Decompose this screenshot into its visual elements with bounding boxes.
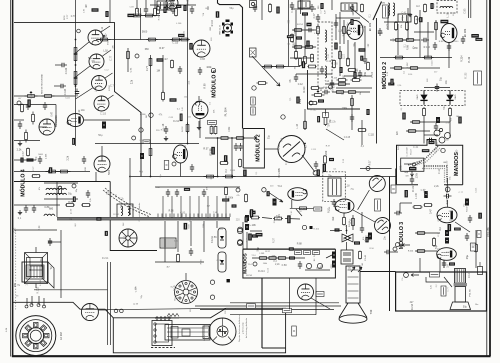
part tag <box>49 167 52 173</box>
wire <box>60 230 62 298</box>
svg-text:5600: 5600 <box>295 42 297 48</box>
wire <box>98 309 108 311</box>
capacitor C51 <box>350 4 354 12</box>
wire <box>292 29 316 31</box>
wire <box>290 57 314 59</box>
wire <box>439 258 441 272</box>
resistor R60 <box>338 83 347 86</box>
label plate <box>292 326 297 336</box>
capacitor C60 <box>38 156 42 164</box>
label plate <box>477 231 481 238</box>
svg-text:220: 220 <box>210 175 213 180</box>
ion trap body <box>165 325 210 341</box>
resistor R26 <box>257 82 268 85</box>
svg-text:EC92: EC92 <box>108 38 110 44</box>
coil box <box>117 204 133 218</box>
svg-text:2,2k: 2,2k <box>275 263 280 266</box>
svg-text:C.115: C.115 <box>311 149 316 151</box>
wire <box>292 8 316 10</box>
shielded cable <box>410 148 440 167</box>
wire <box>187 0 189 144</box>
circled <box>302 225 306 229</box>
wire <box>199 119 201 139</box>
wire <box>301 0 303 10</box>
wire <box>343 213 345 217</box>
speaker magnet <box>346 266 360 303</box>
wire <box>243 248 336 250</box>
resistor R104 <box>348 69 357 72</box>
resistor R45 <box>394 39 405 42</box>
svg-text:1M: 1M <box>446 140 449 142</box>
connector socket <box>222 20 233 37</box>
potentiometer P2 <box>98 35 111 41</box>
circled <box>210 295 214 299</box>
wire <box>424 87 450 89</box>
wire <box>392 251 398 253</box>
wire <box>14 181 110 183</box>
resistor R67 <box>177 254 180 263</box>
resistor R5 <box>25 130 28 143</box>
node j4 <box>262 188 266 192</box>
svg-text:C.12: C.12 <box>191 289 193 294</box>
part tag <box>390 79 393 85</box>
svg-text:R.102: R.102 <box>100 100 105 102</box>
svg-text:C.77: C.77 <box>146 65 149 71</box>
svg-text:680: 680 <box>331 264 334 269</box>
resistor R66 <box>225 187 228 196</box>
svg-text:10n: 10n <box>81 109 86 112</box>
svg-text:R.214: R.214 <box>300 98 302 104</box>
comb <box>158 214 230 218</box>
wire <box>352 215 354 230</box>
svg-text:C.104: C.104 <box>64 88 67 95</box>
svg-text:R.102: R.102 <box>413 185 415 192</box>
wire <box>339 46 341 76</box>
svg-text:4k7: 4k7 <box>18 98 21 100</box>
resistor R34 <box>293 29 303 32</box>
label <box>20 158 23 163</box>
wire <box>14 23 141 177</box>
capacitor C43 <box>410 176 414 184</box>
label plate <box>391 185 396 193</box>
tube V12 EF183 <box>347 21 363 40</box>
svg-text:R.37: R.37 <box>272 237 275 243</box>
label <box>458 117 461 124</box>
svg-text:L.106: L.106 <box>45 153 47 159</box>
tube V11 PY88 <box>173 145 188 163</box>
svg-text:680: 680 <box>318 6 320 9</box>
wire <box>346 225 348 234</box>
wire <box>291 200 293 208</box>
wire <box>358 190 370 210</box>
ion trap bracket <box>152 317 172 346</box>
label <box>289 256 295 259</box>
svg-text:C.41: C.41 <box>292 7 294 12</box>
wire <box>300 0 302 14</box>
svg-text:L.18: L.18 <box>387 72 389 76</box>
svg-text:VER OL 43: VER OL 43 <box>220 24 222 35</box>
svg-text:R.102: R.102 <box>36 286 39 293</box>
part tag <box>478 213 482 219</box>
resistor R25 <box>275 65 286 68</box>
svg-text:C.77: C.77 <box>351 28 357 30</box>
wire <box>326 129 344 140</box>
wire <box>14 229 57 231</box>
tube V15 <box>335 199 354 213</box>
svg-text:C.83: C.83 <box>129 7 133 9</box>
part tag <box>302 61 305 68</box>
sync cap <box>322 90 330 94</box>
wire <box>75 0 77 146</box>
part tag <box>448 224 452 231</box>
wire <box>48 241 61 243</box>
flyback cage <box>323 172 346 202</box>
label <box>248 234 251 241</box>
svg-text:680: 680 <box>175 298 177 301</box>
capacitor C41 <box>444 194 452 198</box>
label <box>232 204 237 207</box>
socket base <box>16 316 56 356</box>
svg-text:R.88: R.88 <box>297 244 303 246</box>
svg-text:1M: 1M <box>405 175 408 177</box>
svg-text:1M: 1M <box>330 120 332 123</box>
part tag <box>409 167 416 171</box>
svg-text:C.77: C.77 <box>70 208 73 214</box>
svg-text:C.77: C.77 <box>447 161 449 165</box>
part tag <box>245 216 248 222</box>
wire <box>390 67 440 69</box>
resistor R110 <box>32 175 41 178</box>
label <box>350 19 353 25</box>
svg-text:4k7: 4k7 <box>410 301 415 304</box>
wire <box>231 138 233 177</box>
svg-text:C.115: C.115 <box>476 188 478 193</box>
label <box>402 113 405 120</box>
capacitor C1 <box>59 63 67 67</box>
svg-text:50µ: 50µ <box>68 193 73 196</box>
capacitor C14 <box>363 56 367 64</box>
label <box>436 117 440 123</box>
node j5 <box>393 247 397 251</box>
coil row <box>46 188 66 190</box>
socket plate <box>474 71 482 85</box>
svg-text:R.37: R.37 <box>369 160 371 165</box>
wire <box>335 14 337 40</box>
resistor R6 <box>46 170 59 173</box>
label plate <box>441 286 446 296</box>
label <box>248 234 251 241</box>
cable <box>57 217 230 220</box>
socket 8pin <box>175 281 198 304</box>
wire <box>76 42 90 53</box>
tube V16 <box>81 304 98 321</box>
svg-text:L.106: L.106 <box>436 142 439 149</box>
wire <box>435 20 437 40</box>
tube V13 EF183 <box>441 24 457 43</box>
part tag <box>224 155 228 161</box>
svg-text:C.83: C.83 <box>14 227 16 233</box>
capacitor C5 <box>82 156 86 164</box>
svg-text:R.88: R.88 <box>439 41 444 43</box>
wire <box>105 308 226 309</box>
ion trap magnet <box>209 318 236 345</box>
resistor R8 <box>132 14 143 17</box>
tube V4 <box>94 96 109 111</box>
resistor R30 <box>347 57 350 67</box>
resistor R42 <box>393 67 404 70</box>
wire <box>390 39 420 41</box>
resistor R36c <box>311 54 314 63</box>
svg-text:L.18: L.18 <box>345 186 350 188</box>
capacitor C23 <box>314 161 318 169</box>
tube V14 <box>288 188 307 201</box>
wire <box>444 184 463 186</box>
wire <box>447 200 449 207</box>
resistor R92 <box>136 8 139 17</box>
resistor R107 <box>175 8 178 17</box>
svg-text:PCL 86: PCL 86 <box>486 227 490 237</box>
capacitor C7 <box>234 143 238 151</box>
resistor R21 <box>223 175 236 178</box>
svg-text:C.77: C.77 <box>313 13 316 19</box>
wire <box>475 230 477 268</box>
cable edge <box>57 216 230 218</box>
resistor R19 <box>162 91 165 102</box>
part tag <box>440 20 448 24</box>
node C <box>281 115 285 119</box>
resistor R15 <box>210 126 213 135</box>
label plate <box>251 97 256 105</box>
svg-text:T.14: T.14 <box>281 137 284 142</box>
label plate <box>323 113 329 118</box>
svg-text:C.115: C.115 <box>368 135 375 137</box>
node <box>231 137 233 139</box>
wire <box>43 298 45 306</box>
tube V18 PCL86b <box>437 248 457 261</box>
capacitor C3 <box>26 102 30 110</box>
svg-text:1M: 1M <box>25 282 28 285</box>
svg-text:50µ: 50µ <box>404 171 409 174</box>
capacitor C32 <box>202 189 206 197</box>
label <box>306 41 309 48</box>
svg-text:C.83: C.83 <box>200 59 206 61</box>
wire <box>56 182 58 217</box>
wire <box>347 40 349 60</box>
resistor R109 <box>27 148 30 157</box>
wire <box>426 277 448 282</box>
wire <box>150 55 152 177</box>
tube side band <box>454 283 467 286</box>
svg-text:15k: 15k <box>188 116 191 118</box>
label <box>424 191 428 198</box>
resistor R94 <box>361 4 364 13</box>
part tag <box>127 14 134 17</box>
wire <box>39 126 47 128</box>
part tag <box>96 217 101 220</box>
wire <box>14 204 60 206</box>
svg-text:C.41: C.41 <box>360 27 366 29</box>
svg-text:R.102: R.102 <box>407 62 409 69</box>
wire <box>343 20 345 44</box>
svg-text:OA85: OA85 <box>416 94 419 100</box>
wire arrow3 <box>296 209 302 216</box>
svg-text:1M: 1M <box>447 264 449 267</box>
label <box>170 98 177 101</box>
resistor R108 <box>21 104 24 113</box>
wire <box>216 221 218 228</box>
if can <box>318 22 332 88</box>
capacitor C13 <box>294 74 298 82</box>
ground <box>197 125 201 130</box>
circled <box>149 113 153 117</box>
arrow up1 <box>351 267 355 272</box>
capacitor C33 <box>189 248 193 256</box>
resistor R9 <box>144 14 155 17</box>
capacitor C9 <box>164 126 168 134</box>
circled <box>139 128 143 132</box>
tube V7 <box>94 156 110 172</box>
svg-text:1M: 1M <box>207 206 210 208</box>
capacitor C42 <box>394 211 402 215</box>
transformer T6 <box>341 250 353 264</box>
capacitor C61 <box>435 84 439 92</box>
svg-text:0,1: 0,1 <box>404 71 406 74</box>
label plate <box>471 243 476 251</box>
svg-text:C.115: C.115 <box>230 170 236 172</box>
resistor R84 <box>416 250 426 253</box>
resistor R102 <box>308 65 317 68</box>
wire <box>55 105 57 128</box>
svg-text:47k: 47k <box>39 187 41 190</box>
sync circ <box>329 85 333 89</box>
svg-text:R.214: R.214 <box>323 87 329 89</box>
wire <box>360 271 396 273</box>
svg-text:C.115: C.115 <box>172 43 179 45</box>
resistor R70 <box>299 207 308 210</box>
node <box>120 309 124 313</box>
label <box>163 7 166 13</box>
wire arrow <box>253 137 257 140</box>
capacitor C26 <box>332 199 336 207</box>
circled <box>135 54 139 58</box>
svg-text:C.115: C.115 <box>125 235 127 242</box>
resistor R106 <box>157 6 160 15</box>
node j6 <box>439 128 442 131</box>
part tag <box>256 233 263 237</box>
resistor R96 <box>74 48 77 55</box>
label <box>102 122 106 129</box>
label <box>366 109 369 115</box>
svg-text:C.83: C.83 <box>44 207 50 209</box>
transformer T2b <box>25 247 48 288</box>
label <box>276 7 279 14</box>
svg-text:10n: 10n <box>475 304 478 306</box>
svg-text:y del ion-trap: y del ion-trap <box>242 321 245 333</box>
choke <box>160 238 176 248</box>
node X1 <box>313 171 317 175</box>
svg-text:R.37: R.37 <box>438 232 440 236</box>
label plate <box>295 251 302 255</box>
wire <box>155 186 240 188</box>
wire <box>489 0 491 356</box>
svg-text:R.102: R.102 <box>113 214 120 216</box>
part tag <box>422 149 430 152</box>
wire <box>470 0 472 18</box>
wire <box>34 289 108 291</box>
resistor R64 <box>65 204 75 207</box>
label <box>245 215 249 221</box>
coil row <box>46 193 66 195</box>
transformer T4 <box>398 14 411 22</box>
wire <box>354 42 356 76</box>
wire <box>110 182 157 251</box>
wire <box>131 15 160 17</box>
wire <box>31 296 33 305</box>
wire <box>264 148 278 150</box>
wire <box>140 8 142 40</box>
svg-text:L.106: L.106 <box>176 23 182 25</box>
resistor R4 <box>32 112 35 125</box>
resistor R43 <box>409 67 420 70</box>
label <box>320 3 323 9</box>
svg-text:100k: 100k <box>401 164 403 170</box>
svg-text:T.14: T.14 <box>443 105 446 110</box>
capacitor C56 <box>358 70 362 78</box>
node <box>129 213 131 215</box>
potentiometer P3 <box>434 130 440 136</box>
svg-text:C.12: C.12 <box>102 26 104 31</box>
svg-text:R.88: R.88 <box>407 44 410 50</box>
part tag <box>211 147 215 155</box>
coil L6 <box>440 6 453 8</box>
node <box>75 85 77 87</box>
resistor R82b <box>424 204 433 207</box>
svg-text:R.102: R.102 <box>466 206 468 212</box>
svg-text:10n: 10n <box>116 194 118 197</box>
svg-text:R.37: R.37 <box>382 78 384 82</box>
svg-text:R.214: R.214 <box>297 24 304 26</box>
wire <box>154 0 156 8</box>
resistor R61 <box>324 116 327 126</box>
resistor R93 <box>154 8 157 17</box>
resistor R38 <box>406 21 409 31</box>
part tag <box>317 116 320 122</box>
svg-text:1M: 1M <box>86 4 88 7</box>
wire <box>101 26 110 32</box>
svg-text:RED DE SEGURIDAD: RED DE SEGURIDAD <box>41 73 44 94</box>
wire <box>162 88 164 92</box>
resistor R32 <box>351 79 362 82</box>
wire <box>415 232 440 234</box>
coil L2 <box>325 48 327 60</box>
svg-text:1M: 1M <box>69 219 72 221</box>
yoke circle 3 <box>375 218 391 234</box>
svg-text:C.115: C.115 <box>298 46 303 48</box>
resistor R68 <box>250 216 260 219</box>
wire <box>44 182 78 184</box>
svg-text:100k: 100k <box>416 172 419 178</box>
capacitor C59 <box>18 121 22 129</box>
transformer T5 <box>328 178 341 196</box>
resistor R36 <box>304 46 314 49</box>
svg-text:680: 680 <box>343 74 346 79</box>
part tag <box>454 228 461 231</box>
resistor R23 <box>317 25 320 35</box>
resistor R7 <box>58 170 71 173</box>
shielded cable <box>422 169 445 184</box>
wire <box>360 168 392 170</box>
wire <box>9 0 11 357</box>
